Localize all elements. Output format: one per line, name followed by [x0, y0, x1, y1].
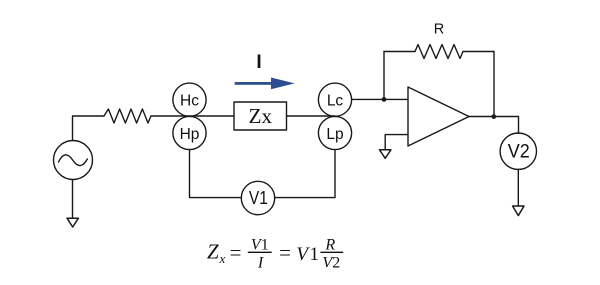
ground (below V2) — [513, 206, 524, 216]
op-amp U1 — [408, 87, 469, 146]
svg-text:V1: V1 — [249, 187, 268, 208]
svg-text:=: = — [228, 241, 242, 265]
wire feedback top right — [463, 51, 494, 53]
impedance Zx box — [234, 102, 287, 130]
sine symbol — [59, 155, 88, 166]
wire Hp down to V1 — [190, 150, 242, 198]
svg-text:R: R — [324, 236, 335, 253]
svg-text:V2: V2 — [322, 255, 340, 272]
junction dot (feedback / output) — [491, 114, 496, 119]
fraction bar V1/I — [248, 251, 272, 253]
node Hp circle — [173, 116, 206, 149]
AC source V — [54, 141, 93, 180]
wire op-amp output — [469, 117, 519, 134]
svg-text:Zx: Zx — [249, 104, 273, 128]
wire source to ground — [72, 180, 74, 218]
wire Lc to op-amp inverting input — [352, 98, 408, 100]
junction dot (feedback / inverting input) — [382, 97, 387, 102]
ground (below source) — [67, 218, 78, 227]
svg-text:Hp: Hp — [180, 126, 200, 143]
equation Zx = V1/I = V1 R/V2 — [207, 236, 340, 271]
svg-text:I: I — [257, 255, 264, 272]
voltmeter V2 circle — [500, 133, 536, 169]
svg-text:x: x — [219, 251, 226, 266]
svg-text:=: = — [278, 241, 292, 265]
node Lp circle — [318, 116, 351, 149]
current arrow I — [235, 78, 295, 90]
ground (op-amp + input) — [380, 150, 391, 159]
svg-text:V1: V1 — [251, 236, 269, 253]
voltmeter V1 circle — [241, 181, 274, 214]
svg-text:Lp: Lp — [326, 126, 343, 143]
wire feedback left vertical — [383, 52, 385, 100]
resistor R — [415, 45, 463, 59]
svg-text:R: R — [434, 21, 444, 37]
node Hc circle — [173, 83, 206, 116]
wire feedback right vertical — [493, 52, 495, 117]
resistor (source series) — [104, 109, 151, 123]
svg-text:I: I — [256, 52, 261, 73]
wire Zx to Lc/Lp — [287, 115, 336, 117]
wire V2 to ground — [517, 169, 519, 206]
svg-text:V2: V2 — [508, 140, 530, 162]
svg-text:Lc: Lc — [327, 93, 344, 110]
svg-text:Hc: Hc — [180, 93, 199, 110]
wire source top to resistor — [73, 116, 105, 141]
wire op-amp non-inverting input — [385, 135, 408, 150]
wire resistor to Zx box — [151, 115, 234, 117]
node Lc circle — [318, 83, 351, 116]
svg-text:V1: V1 — [296, 244, 320, 265]
svg-text:Z: Z — [207, 240, 219, 264]
wire V1 to Lp — [275, 150, 335, 198]
fraction bar R/V2 — [320, 251, 343, 253]
wire feedback top left — [384, 51, 415, 53]
